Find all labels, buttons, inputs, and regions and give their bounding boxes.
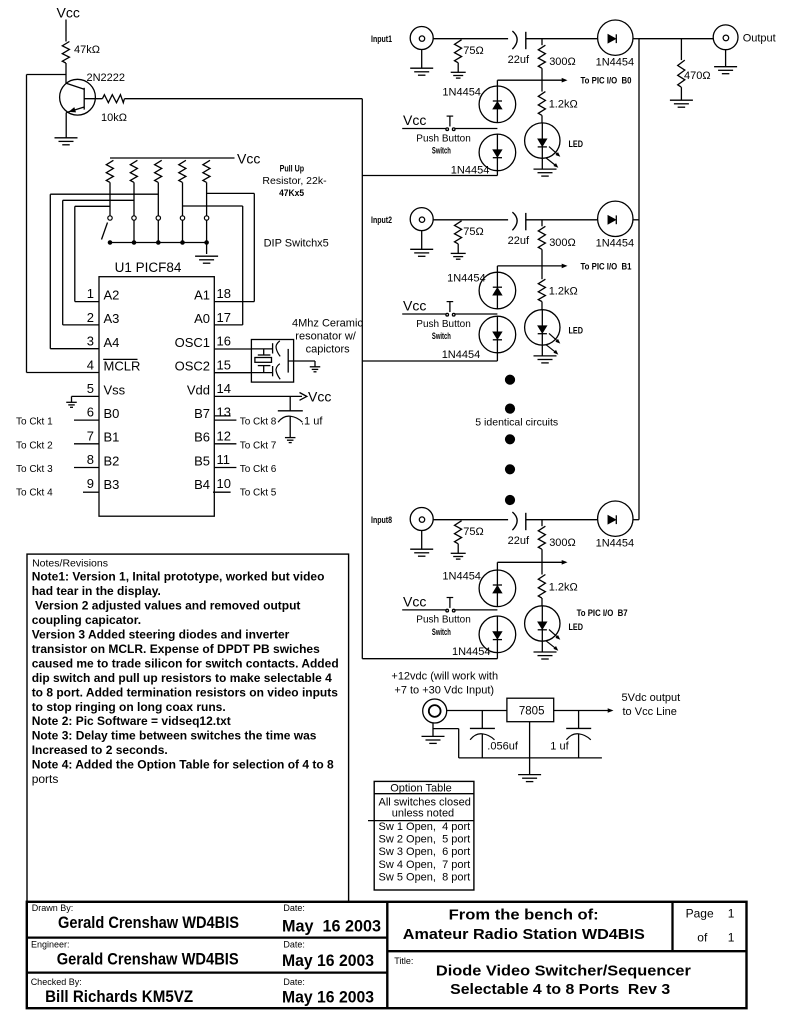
svg-text:to stop ringing on long coax r: to stop ringing on long coax runs. — [32, 700, 226, 714]
svg-text:300Ω: 300Ω — [549, 56, 576, 68]
ground (LED ckt1) — [534, 168, 557, 170]
wire return to bus (ckt1) — [362, 175, 497, 177]
wire push button to chain (ckt2) — [455, 313, 497, 315]
BNC connector Input8 — [410, 508, 433, 531]
series diode symbol (ckt2) — [608, 216, 616, 224]
resistor 300 (ckt1) lead — [541, 39, 543, 46]
pull-up resistor 2 — [130, 160, 137, 182]
svg-text:Vcc: Vcc — [403, 112, 426, 128]
resistor 300 (ckt1) — [538, 45, 545, 68]
LED light arrow 1 (ckt1) — [549, 147, 559, 156]
svg-text:Note 3: Delay time between swi: Note 3: Delay time between switches the … — [32, 729, 317, 743]
Vcc rail for pull-ups — [110, 157, 235, 159]
wire net A1 horizontal (col5 to right) — [207, 192, 255, 194]
svg-text:16: 16 — [217, 334, 231, 349]
svg-text:A3: A3 — [104, 311, 120, 326]
option table header divider — [374, 793, 474, 795]
svg-text:Push Button: Push Button — [416, 319, 470, 330]
svg-text:1N4454: 1N4454 — [442, 86, 481, 98]
ground (BNC Input2) — [410, 248, 433, 250]
wire net A1 vertical — [253, 193, 255, 301]
pin 9 stub — [83, 491, 99, 493]
wire Input1 main segment — [433, 38, 508, 40]
wire output BNC to ground — [725, 50, 727, 67]
push button actuator (ckt2) — [449, 302, 451, 312]
svg-text:22uf: 22uf — [508, 235, 530, 247]
DIP switch 2 closed blade — [133, 220, 135, 242]
ground (power connector) — [422, 735, 445, 737]
svg-text:Input1: Input1 — [371, 34, 392, 44]
svg-text:Amateur Radio Station WD4BIS: Amateur Radio Station WD4BIS — [403, 926, 645, 943]
svg-text:300Ω: 300Ω — [549, 537, 576, 549]
svg-text:Vss: Vss — [104, 382, 126, 397]
series diode symbol (ckt1) — [608, 35, 616, 43]
svg-text:15: 15 — [217, 357, 231, 372]
svg-text:Date:: Date: — [283, 903, 305, 913]
pin 13 extra stub line — [214, 415, 230, 417]
crystal top stub — [263, 349, 265, 355]
ground (75 ohm ckt2) — [451, 252, 466, 254]
svg-text:caused me to trade silicon for: caused me to trade silicon for switch co… — [32, 656, 339, 670]
title block left divider 2 — [27, 971, 388, 973]
wire Input2 main segment — [433, 219, 508, 221]
svg-text:47kΩ: 47kΩ — [74, 44, 100, 56]
svg-text:To Ckt 1: To Ckt 1 — [16, 417, 53, 428]
arrowhead to PIC (ckt1) — [562, 78, 568, 83]
wire steering chain top (ckt8) — [496, 562, 498, 570]
ground (75 ohm ckt1) — [451, 71, 466, 73]
svg-text:U1 PICF84: U1 PICF84 — [115, 260, 182, 275]
capacitor 1 uf — [566, 727, 591, 729]
svg-text:Drawn By:: Drawn By: — [32, 903, 74, 913]
DIP switch 4 contact — [180, 216, 184, 220]
svg-text:18: 18 — [217, 286, 231, 301]
wire net A3 horizontal (col2 to pin2) — [63, 199, 134, 201]
ground (power supply) — [518, 774, 541, 776]
svg-text:Sw 5 Open, 8 port: Sw 5 Open, 8 port — [379, 871, 471, 883]
svg-text:To Ckt 4: To Ckt 4 — [16, 488, 53, 499]
capacitor 22uf (ckt1) — [512, 31, 517, 49]
svg-text:Vcc: Vcc — [57, 5, 80, 21]
svg-text:1N4454: 1N4454 — [442, 570, 481, 582]
resistor 75 (ckt2) — [455, 221, 462, 244]
power ground rail — [459, 757, 602, 759]
svg-text:10: 10 — [217, 476, 231, 491]
pin 12 stub — [214, 443, 236, 445]
title block outer border — [27, 902, 747, 1008]
svg-text:DIP Switchx5: DIP Switchx5 — [264, 238, 329, 250]
resonator cap 1 curved plate — [276, 341, 280, 357]
push button contact right (ckt1) — [452, 128, 455, 131]
ground (resonator) — [314, 361, 316, 367]
resistor 1.2k (ckt2) — [538, 279, 545, 301]
svg-text:LED: LED — [569, 326, 584, 336]
svg-text:Diode Video Switcher/Sequencer: Diode Video Switcher/Sequencer — [436, 962, 691, 979]
svg-text:Push Button: Push Button — [416, 133, 470, 144]
push button contact left (ckt2) — [446, 313, 449, 316]
svg-text:To PIC I/O B7: To PIC I/O B7 — [577, 608, 628, 618]
svg-text:470Ω: 470Ω — [684, 70, 711, 82]
svg-text:7805: 7805 — [519, 705, 545, 717]
steering diode top circle (ckt2) — [479, 272, 516, 309]
svg-text:8: 8 — [87, 452, 94, 467]
push button contact left (ckt8) — [446, 609, 449, 612]
svg-text:10kΩ: 10kΩ — [101, 112, 127, 124]
resistor 1.2k lead (ckt2) — [541, 266, 543, 279]
svg-text:.056uf: .056uf — [487, 741, 519, 753]
svg-text:capictors: capictors — [306, 344, 351, 356]
svg-text:1N4454: 1N4454 — [447, 273, 486, 285]
svg-text:Note1: Version 1, Inital proto: Note1: Version 1, Inital prototype, work… — [32, 570, 325, 584]
wire steering chain top (ckt1) — [496, 80, 498, 86]
continuation dot 4 — [505, 465, 514, 474]
pin 15 stub — [214, 372, 251, 374]
BNC connector Input1 — [410, 27, 433, 50]
continuation dot 2 — [505, 404, 514, 413]
svg-text:OSC1: OSC1 — [175, 335, 210, 350]
svg-text:Note 2: Pic Software = vidseq1: Note 2: Pic Software = vidseq12.txt — [32, 714, 231, 728]
svg-text:47Kx5: 47Kx5 — [279, 188, 304, 198]
steering diode bottom symbol (ckt1) — [496, 134, 498, 171]
junction dot switch 2 common — [132, 241, 136, 245]
DIP switch 5 contact — [204, 216, 208, 220]
wire Vdd pin14 to Vcc arrow — [214, 395, 302, 397]
wire diode to bus (ckt1) — [633, 38, 639, 40]
pin 6 stub — [74, 419, 99, 421]
wire connector to 7805 — [447, 710, 507, 712]
svg-text:1.2kΩ: 1.2kΩ — [549, 581, 578, 593]
svg-text:Version 2 adjusted values and: Version 2 adjusted values and removed ou… — [32, 599, 301, 613]
svg-text:3: 3 — [87, 334, 94, 349]
steering diode bottom circle (ckt1) — [479, 134, 516, 171]
wire net A3 vertical — [62, 200, 64, 325]
resistor 300 (ckt2) lead — [541, 220, 543, 227]
wire cap .056 bottom lead — [481, 734, 483, 758]
svg-text:Push Button: Push Button — [416, 615, 470, 626]
svg-text:MCLR: MCLR — [104, 359, 141, 374]
svg-text:Option Table: Option Table — [390, 783, 452, 795]
steering diode bottom circle (ckt2) — [479, 316, 516, 353]
svg-text:Vdd: Vdd — [187, 382, 210, 397]
capacitor .1 uf — [278, 410, 303, 412]
resistor 300 (ckt8) lead — [541, 520, 543, 527]
svg-text:.1 uf: .1 uf — [301, 416, 323, 428]
wire Vcc to push button (ckt1) — [402, 128, 446, 130]
pin 7 stub — [74, 443, 99, 445]
wire diode to bus (ckt2) — [633, 219, 639, 221]
power connector outer — [423, 699, 447, 723]
svg-text:A4: A4 — [104, 335, 120, 350]
push button contact left (ckt1) — [446, 128, 449, 131]
svg-text:B0: B0 — [104, 406, 120, 421]
svg-text:12: 12 — [217, 428, 231, 443]
wire chain bottom (ckt2) — [496, 353, 498, 361]
crystal bottom plate — [258, 365, 271, 367]
ground (Vss) — [71, 396, 73, 402]
wire steering chain top (ckt2) — [496, 266, 498, 272]
svg-text:+7 to +30 Vdc Input): +7 to +30 Vdc Input) — [394, 684, 494, 696]
svg-text:B2: B2 — [104, 453, 120, 468]
svg-text:1.2kΩ: 1.2kΩ — [549, 286, 578, 298]
continuation dot 5 — [505, 495, 514, 504]
resistor 1.2k lead (ckt8) — [541, 562, 543, 574]
ground (DIP common) — [195, 255, 218, 257]
svg-text:Pull Up: Pull Up — [280, 164, 305, 174]
svg-text:Sw 4 Open, 7 port: Sw 4 Open, 7 port — [379, 859, 471, 871]
svg-text:To PIC I/O B1: To PIC I/O B1 — [581, 261, 632, 271]
wire return to bus (ckt2) — [362, 360, 497, 362]
wire Vcc to push button (ckt2) — [402, 313, 446, 315]
arrowhead to PIC (ckt2) — [562, 264, 568, 269]
svg-text:Engineer:: Engineer: — [31, 939, 70, 949]
Vcc chevron — [300, 393, 307, 401]
wire Vcc to R 47k — [65, 20, 67, 42]
svg-text:1N4454: 1N4454 — [442, 349, 481, 361]
resonator cap 1 flat plate — [272, 343, 274, 353]
continuation dot 1 — [505, 375, 514, 384]
steering diode top symbol (ckt1) — [496, 86, 498, 123]
svg-text:Increased to 2 seconds.: Increased to 2 seconds. — [32, 743, 168, 757]
ground (BNC Input8) — [410, 548, 433, 550]
series diode 1N4454 circle (ckt1) — [598, 20, 633, 55]
svg-text:Sw 2 Open, 5 port: Sw 2 Open, 5 port — [379, 834, 471, 846]
svg-text:Page: Page — [686, 906, 714, 920]
LED light arrow 2 (ckt8) — [546, 641, 557, 650]
DIP switch common bus — [110, 242, 207, 244]
wire OSC1 inside resonator — [251, 348, 272, 350]
svg-text:To Ckt 3: To Ckt 3 — [16, 464, 53, 475]
svg-text:11: 11 — [217, 452, 231, 467]
resistor 470 — [678, 60, 685, 87]
wire net A4 horizontal (col3 to pin3) — [50, 193, 158, 195]
steering diode bottom circle (ckt8) — [479, 616, 516, 653]
BNC connector Output — [713, 25, 738, 50]
svg-text:To Ckt 6: To Ckt 6 — [240, 464, 277, 475]
wire emitter to ground — [65, 113, 67, 138]
svg-text:To Ckt 8: To Ckt 8 — [240, 417, 277, 428]
title block left divider 1 — [27, 936, 388, 938]
transistor collector stroke — [66, 83, 84, 89]
wire collector node to MCLR vertical — [27, 74, 67, 76]
wire chain bottom (ckt1) — [496, 171, 498, 176]
push button actuator (ckt1) — [449, 116, 451, 126]
svg-text:LED: LED — [569, 139, 584, 149]
svg-text:May 16 2003: May 16 2003 — [282, 988, 374, 1007]
wire pull-up 3 to switch — [157, 182, 159, 215]
ground (emitter) — [55, 137, 78, 139]
svg-text:Sw 3 Open, 6 port: Sw 3 Open, 6 port — [379, 846, 471, 858]
wire 7805 output — [554, 710, 612, 712]
svg-text:Notes/Revisions: Notes/Revisions — [32, 557, 108, 569]
series diode 1N4454 circle (ckt2) — [598, 201, 633, 236]
svg-text:9: 9 — [87, 476, 94, 491]
crystal bottom stub — [263, 366, 265, 373]
svg-text:Vcc: Vcc — [403, 594, 426, 610]
svg-text:Date:: Date: — [283, 939, 305, 949]
svg-text:1.2kΩ: 1.2kΩ — [549, 99, 578, 111]
svg-text:To Ckt 5: To Ckt 5 — [240, 488, 277, 499]
wire cap 1uf top lead — [578, 711, 580, 729]
push button contact right (ckt2) — [452, 313, 455, 316]
ground (470 ohm) — [670, 99, 693, 101]
svg-text:Version 3 Added steering diode: Version 3 Added steering diodes and inve… — [32, 628, 290, 642]
option table box — [374, 781, 474, 890]
wire connector shell tap — [433, 728, 459, 730]
wire LED to ground (ckt2) — [541, 345, 543, 356]
svg-text:Vcc: Vcc — [237, 151, 260, 167]
IC U1 PICF84 body — [99, 277, 214, 517]
DIP switch 3 closed blade — [157, 220, 159, 242]
svg-text:ports: ports — [32, 772, 59, 786]
wire cap .056 top lead — [481, 711, 483, 729]
svg-text:unless noted: unless noted — [392, 807, 454, 819]
svg-text:May 16 2003: May 16 2003 — [282, 951, 374, 970]
wire chain bottom (ckt8) — [496, 653, 498, 659]
svg-text:5: 5 — [87, 381, 94, 396]
wire base resistor to left bus — [124, 98, 362, 100]
svg-text:5 identical circuits: 5 identical circuits — [475, 417, 558, 429]
svg-text:300Ω: 300Ω — [549, 237, 576, 249]
wire DIP common to ground — [206, 243, 208, 255]
svg-text:+12vdc (will work with: +12vdc (will work with — [391, 671, 498, 683]
svg-text:Vcc: Vcc — [403, 298, 426, 314]
pin 8 stub — [74, 467, 99, 469]
wire OSC2 inside resonator — [251, 372, 272, 374]
option table divider 2 — [368, 820, 474, 822]
push button actuator (ckt8) — [449, 598, 451, 608]
resistor 10k zigzag — [102, 95, 124, 103]
resistor 75 (ckt1) — [455, 40, 462, 63]
svg-text:Gerald Crenshaw WD4BIS: Gerald Crenshaw WD4BIS — [58, 913, 239, 932]
resistor 1.2k lead (ckt1) — [541, 80, 543, 91]
svg-text:dip switch and pull up resisto: dip switch and pull up resistors to make… — [32, 671, 332, 685]
svg-text:May 16 2003: May 16 2003 — [282, 917, 381, 936]
svg-text:Checked By:: Checked By: — [31, 977, 82, 987]
wire BNC Input1 to ground — [421, 50, 423, 68]
svg-text:LED: LED — [569, 622, 584, 632]
junction dot switch 3 common — [157, 241, 161, 245]
svg-text:1N4454: 1N4454 — [451, 165, 490, 177]
LED light arrow 1 (ckt8) — [549, 630, 559, 639]
svg-text:75Ω: 75Ω — [463, 226, 483, 238]
svg-text:Sw 1 Open, 4 port: Sw 1 Open, 4 port — [379, 821, 471, 833]
wire steering node line (ckt1) — [497, 79, 566, 81]
svg-text:OSC2: OSC2 — [175, 359, 210, 374]
transistor base bar — [83, 88, 85, 110]
pin 11 stub — [214, 467, 236, 469]
wire net A2 vertical — [74, 206, 76, 301]
svg-text:75Ω: 75Ω — [463, 526, 483, 538]
wire Vcc to push button (ckt8) — [402, 609, 446, 611]
wire cap 1uf bottom lead — [578, 734, 580, 758]
junction dot switch 1 common — [108, 241, 112, 245]
wire R47k to collector node — [65, 63, 67, 83]
transistor emitter arrowhead — [69, 107, 77, 112]
ground (LED ckt8) — [534, 651, 557, 653]
pull-up resistor 1 — [106, 160, 113, 182]
LED light arrow 2 (ckt1) — [546, 158, 557, 167]
wire to output — [639, 38, 713, 40]
svg-text:1N4454: 1N4454 — [452, 646, 491, 658]
svg-text:Title:: Title: — [394, 956, 413, 966]
wire LED to ground (ckt1) — [541, 158, 543, 169]
wire BNC Input2 to ground — [421, 231, 423, 249]
svg-text:7: 7 — [87, 428, 94, 443]
svg-text:B5: B5 — [194, 453, 210, 468]
power connector inner — [429, 705, 441, 717]
svg-text:1N4454: 1N4454 — [596, 56, 635, 68]
svg-text:22uf: 22uf — [508, 535, 530, 547]
wire cap to diode (ckt8) — [526, 519, 598, 521]
svg-text:1N4454: 1N4454 — [596, 237, 635, 249]
wire pull-up 4 to switch — [182, 182, 184, 215]
svg-text:From the bench of:: From the bench of: — [449, 906, 599, 923]
LED light arrow 2 (ckt2) — [546, 345, 557, 354]
title block mid horizontal divider — [387, 950, 746, 952]
ground (75 ohm ckt8) — [451, 552, 466, 554]
DIP switch 3 contact — [156, 216, 160, 220]
title block divider mid/page — [671, 902, 673, 951]
svg-text:1: 1 — [87, 286, 94, 301]
resistor 470 lead — [680, 39, 682, 60]
series diode symbol (ckt8) — [608, 516, 616, 524]
wire net A3 to pin 2 — [63, 324, 99, 326]
wire pull-up 2 to switch — [133, 182, 135, 215]
DIP switch 4 closed blade — [182, 220, 184, 242]
wire push button to chain (ckt8) — [455, 609, 497, 611]
svg-text:Selectable 4 to 8 Ports Rev 3: Selectable 4 to 8 Ports Rev 3 — [450, 981, 670, 998]
LED circle (ckt8) — [525, 606, 560, 641]
wire Vdd to cap .1uf — [289, 396, 291, 410]
LED circle (ckt2) — [525, 310, 560, 345]
arrowhead 5V output — [608, 708, 614, 713]
svg-text:to 8 port. Added termination r: to 8 port. Added termination resistors o… — [32, 685, 339, 699]
svg-text:coupling capicator.: coupling capicator. — [32, 613, 141, 627]
transistor Q1 2N2222 circle — [60, 79, 96, 115]
DIP switch 5 closed blade — [206, 220, 208, 242]
wire net A1 to pin 18 — [214, 301, 254, 303]
DIP switch 1 lever (open) — [102, 223, 108, 240]
wire pull-up 5 to switch — [206, 182, 208, 215]
svg-text:B3: B3 — [104, 477, 120, 492]
wire pull-up 1 to switch — [109, 182, 111, 215]
wire return to bus (ckt8) — [362, 658, 497, 660]
resistor 1.2k (ckt8) — [538, 575, 545, 599]
wire Input8 main segment — [433, 519, 508, 521]
svg-text:Switch: Switch — [432, 146, 451, 156]
resistor 47k zigzag — [62, 42, 69, 64]
output bus vertical — [638, 39, 640, 520]
ground (BNC Input1) — [410, 67, 433, 69]
svg-text:22uf: 22uf — [508, 54, 530, 66]
wire net A0 horizontal (col4 to right) — [183, 205, 243, 207]
steering diode top symbol (ckt8) — [496, 570, 498, 607]
LED circle (ckt1) — [525, 123, 560, 158]
push button contact right (ckt8) — [452, 609, 455, 612]
ground (LED ckt2) — [534, 355, 557, 357]
capacitor 22uf (ckt2) — [512, 212, 517, 230]
svg-text:had tear in the display.: had tear in the display. — [32, 584, 161, 598]
wire net A2 horizontal (col1 to pin1) — [75, 205, 110, 207]
svg-text:4: 4 — [87, 357, 94, 372]
pull-up resistor 4 — [179, 160, 186, 182]
wire steering node line (ckt8) — [497, 561, 566, 563]
svg-text:Resistor, 22k-: Resistor, 22k- — [262, 175, 327, 187]
steering diode top circle (ckt1) — [479, 86, 516, 123]
svg-text:Date:: Date: — [283, 977, 305, 987]
resistor 75 (ckt8) — [455, 521, 462, 544]
svg-text:to Vcc Line: to Vcc Line — [623, 706, 677, 718]
